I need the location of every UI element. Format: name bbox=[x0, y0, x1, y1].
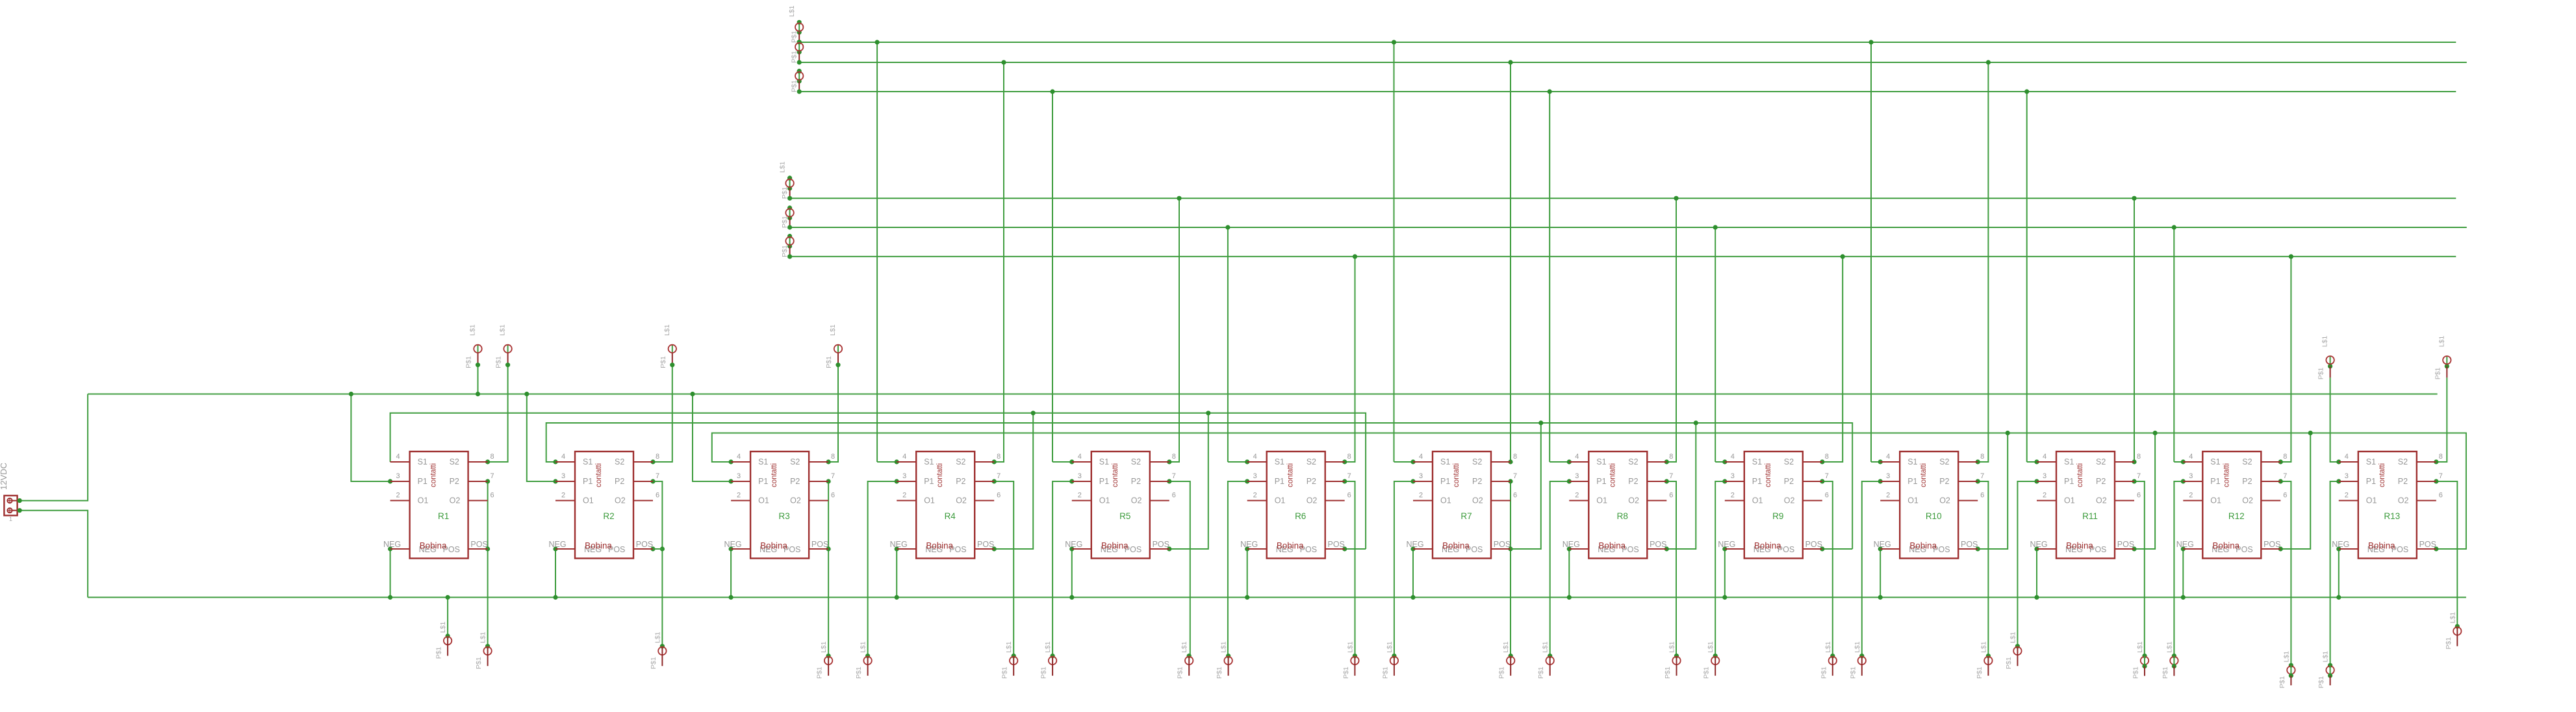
svg-text:4: 4 bbox=[902, 453, 906, 461]
wire connector pin2 to GND bus bbox=[19, 511, 88, 598]
wire R13 P2 down to pad bbox=[2436, 481, 2458, 626]
svg-text:contatti: contatti bbox=[1287, 463, 1295, 487]
wire R12 P1 to pad below bbox=[2174, 481, 2183, 656]
svg-text:6: 6 bbox=[656, 492, 659, 500]
svg-text:P$1: P$1 bbox=[791, 31, 798, 43]
wire R6 P1 to pad below bbox=[1228, 481, 1247, 656]
wire R3 P2/POS down to pad bbox=[828, 481, 829, 656]
svg-text:P1: P1 bbox=[2210, 477, 2220, 486]
svg-text:P2: P2 bbox=[2096, 477, 2106, 486]
svg-text:L$1: L$1 bbox=[1502, 641, 1510, 653]
pad L$1/P$1 (wire pad) bbox=[1342, 641, 1359, 679]
svg-text:R4: R4 bbox=[945, 511, 956, 521]
svg-text:P$1: P$1 bbox=[465, 356, 473, 368]
pad P$1 (stack wire pad) bbox=[791, 40, 804, 63]
svg-text:P$1: P$1 bbox=[781, 186, 789, 199]
svg-text:NEG: NEG bbox=[1406, 540, 1423, 549]
svg-text:P$1: P$1 bbox=[1498, 667, 1506, 679]
svg-text:P2: P2 bbox=[1472, 477, 1482, 486]
svg-text:6: 6 bbox=[2137, 492, 2141, 500]
svg-text:S1: S1 bbox=[1099, 457, 1109, 466]
svg-text:P1: P1 bbox=[1275, 477, 1284, 486]
wire R1 S2 to pad above bbox=[488, 364, 508, 462]
pad L$1/P$1 (wire pad) bbox=[495, 324, 512, 368]
wire pad above down to R13 S2 bbox=[2436, 377, 2447, 462]
pad L$1/P$1 (wire pad) bbox=[2317, 336, 2334, 380]
svg-text:L$1: L$1 bbox=[1542, 641, 1549, 653]
svg-text:R11: R11 bbox=[2082, 511, 2098, 521]
pad L$1/P$1 (wire pad) bbox=[1381, 641, 1398, 679]
wire R2 S2 to pad above bbox=[653, 364, 672, 462]
svg-text:Bobina: Bobina bbox=[1442, 541, 1470, 551]
svg-text:contatti: contatti bbox=[936, 463, 944, 487]
relay R12 (Bobina/contatti) bbox=[2176, 451, 2288, 559]
svg-text:P1: P1 bbox=[2366, 477, 2376, 486]
svg-text:P$1: P$1 bbox=[475, 657, 483, 669]
wire R6 POS from R1 chain end bbox=[1345, 548, 1366, 550]
svg-text:4: 4 bbox=[1419, 453, 1423, 461]
relay R7 (Bobina/contatti) bbox=[1406, 451, 1517, 559]
svg-text:P1: P1 bbox=[1907, 477, 1917, 486]
junction B2 start bbox=[787, 225, 792, 229]
svg-text:S1: S1 bbox=[1907, 457, 1917, 466]
svg-text:L$1: L$1 bbox=[1346, 641, 1354, 653]
wire R12 P2 down to pad bbox=[2280, 481, 2291, 665]
svg-text:2: 2 bbox=[1731, 492, 1735, 500]
svg-text:POS: POS bbox=[636, 540, 653, 549]
svg-text:7: 7 bbox=[1669, 472, 1673, 480]
svg-text:L$1: L$1 bbox=[1824, 641, 1832, 653]
svg-text:S1: S1 bbox=[1440, 457, 1450, 466]
svg-text:R9: R9 bbox=[1772, 511, 1783, 521]
svg-text:2: 2 bbox=[737, 492, 741, 500]
svg-text:O1: O1 bbox=[1440, 496, 1451, 505]
pad L$1/P$1 (wire pad) bbox=[1001, 641, 1018, 679]
svg-text:O2: O2 bbox=[956, 496, 967, 505]
wire bus tap to R5 S1 bbox=[1052, 461, 1072, 463]
svg-text:P$1: P$1 bbox=[855, 667, 863, 679]
wire B1 tap down to R5 S2 bbox=[1169, 198, 1179, 462]
wire R10 P1 to pad below bbox=[1862, 481, 1880, 656]
svg-text:8: 8 bbox=[831, 453, 835, 461]
svg-text:2: 2 bbox=[2043, 492, 2047, 500]
svg-text:8: 8 bbox=[1347, 453, 1351, 461]
svg-text:S2: S2 bbox=[450, 457, 459, 466]
pad L$1/P$1 (wire pad) bbox=[1703, 641, 1720, 679]
pad L$1/P$1 (wire pad) bbox=[1664, 641, 1681, 679]
wire R4 NEG to GND bus bbox=[896, 549, 897, 598]
svg-text:4: 4 bbox=[1731, 453, 1735, 461]
svg-text:P2: P2 bbox=[1628, 477, 1638, 486]
svg-text:S2: S2 bbox=[1939, 457, 1949, 466]
wire R13 NEG to GND bus bbox=[2338, 549, 2340, 598]
svg-text:O2: O2 bbox=[1307, 496, 1318, 505]
wire bus tap to R11 S1 bbox=[2027, 461, 2037, 463]
svg-text:S1: S1 bbox=[1596, 457, 1606, 466]
wire A3 tap down to R5 S1 bbox=[1052, 92, 1053, 462]
relay R11 (Bobina/contatti) bbox=[2030, 451, 2141, 559]
svg-text:contatti: contatti bbox=[1920, 463, 1928, 487]
svg-text:P$1: P$1 bbox=[791, 80, 798, 92]
net R1-S1 chain line bbox=[390, 413, 1366, 549]
wire +12V tap to R2 P1 bbox=[527, 394, 555, 482]
pad P$1 (stack wire pad) bbox=[781, 205, 794, 228]
wire A2 tap down to R4 S2 bbox=[994, 62, 1004, 462]
svg-text:3: 3 bbox=[561, 472, 565, 480]
svg-text:L$1: L$1 bbox=[1707, 641, 1715, 653]
svg-text:P$1: P$1 bbox=[781, 216, 789, 228]
svg-text:2: 2 bbox=[1575, 492, 1579, 500]
svg-text:L$1: L$1 bbox=[2282, 651, 2290, 663]
svg-text:P1: P1 bbox=[583, 477, 593, 486]
wire B3 tap down to R9 S2 bbox=[1822, 257, 1843, 462]
svg-text:3: 3 bbox=[1886, 472, 1890, 480]
svg-text:S1: S1 bbox=[1752, 457, 1762, 466]
svg-text:4: 4 bbox=[396, 453, 400, 461]
svg-text:P$1: P$1 bbox=[435, 646, 443, 659]
wire bus tap to R12 S1 bbox=[2174, 461, 2183, 463]
svg-text:4: 4 bbox=[1253, 453, 1257, 461]
svg-text:6: 6 bbox=[997, 492, 1001, 500]
relay R1 (Bobina/contatti) bbox=[383, 451, 494, 559]
wire bus tap to R10 S1 bbox=[1871, 461, 1880, 463]
wire B2 tap down to R9 S1 bbox=[1715, 227, 1716, 462]
svg-text:NEG: NEG bbox=[1562, 540, 1580, 549]
wire B2 tap down to R6 S1 bbox=[1227, 227, 1229, 462]
wire R10 NEG to GND bus bbox=[1880, 549, 1881, 598]
svg-text:6: 6 bbox=[491, 492, 494, 500]
svg-text:P2: P2 bbox=[1784, 477, 1794, 486]
svg-text:P$1: P$1 bbox=[650, 657, 657, 669]
relay R4 (Bobina/contatti) bbox=[890, 451, 1001, 559]
svg-text:O1: O1 bbox=[418, 496, 429, 505]
svg-text:R8: R8 bbox=[1617, 511, 1628, 521]
svg-text:R10: R10 bbox=[1926, 511, 1942, 521]
wire R6 NEG to GND bus bbox=[1247, 549, 1248, 598]
svg-text:POS: POS bbox=[2117, 540, 2134, 549]
svg-text:4: 4 bbox=[2043, 453, 2047, 461]
svg-text:L$1: L$1 bbox=[479, 631, 487, 643]
svg-text:2: 2 bbox=[1886, 492, 1890, 500]
svg-text:S1: S1 bbox=[758, 457, 768, 466]
svg-text:P1: P1 bbox=[1596, 477, 1606, 486]
svg-text:P2: P2 bbox=[450, 477, 459, 486]
svg-text:L$1: L$1 bbox=[1668, 641, 1676, 653]
pad L$1/P$1 (wire pad) bbox=[2132, 641, 2149, 679]
svg-text:R7: R7 bbox=[1460, 511, 1472, 521]
svg-text:P1: P1 bbox=[924, 477, 934, 486]
svg-text:S2: S2 bbox=[1307, 457, 1316, 466]
svg-text:S2: S2 bbox=[2096, 457, 2106, 466]
pad L$1/P$1 (wire pad) bbox=[2162, 641, 2178, 679]
net A1 top bus bbox=[799, 42, 2456, 43]
connector X1 12VDC (2-pin) bbox=[0, 463, 19, 522]
wire R3 S2 to pad above bbox=[828, 364, 838, 462]
svg-text:6: 6 bbox=[2283, 492, 2287, 500]
svg-text:S2: S2 bbox=[790, 457, 800, 466]
pad L$1/P$1 (wire pad) bbox=[650, 631, 667, 669]
svg-text:P$1: P$1 bbox=[2162, 667, 2169, 679]
svg-text:1: 1 bbox=[9, 516, 12, 522]
svg-text:S2: S2 bbox=[615, 457, 624, 466]
svg-text:8: 8 bbox=[1513, 453, 1517, 461]
svg-text:NEG: NEG bbox=[1240, 540, 1258, 549]
svg-text:P$1: P$1 bbox=[2132, 667, 2140, 679]
svg-text:7: 7 bbox=[1513, 472, 1517, 480]
wire bus tap to R8 S1 bbox=[1549, 461, 1569, 463]
svg-text:NEG: NEG bbox=[890, 540, 908, 549]
svg-text:O1: O1 bbox=[1596, 496, 1607, 505]
svg-text:8: 8 bbox=[491, 453, 494, 461]
svg-text:L$1: L$1 bbox=[779, 161, 787, 173]
pad L$1/P$1 (wire pad) bbox=[659, 324, 676, 368]
svg-text:NEG: NEG bbox=[1718, 540, 1735, 549]
wire +12V tap to R3 P1 bbox=[693, 394, 731, 482]
svg-text:O1: O1 bbox=[1907, 496, 1919, 505]
wire A1 tap down to R10 S1 bbox=[1870, 42, 1872, 462]
svg-text:2: 2 bbox=[561, 492, 565, 500]
svg-text:P$1: P$1 bbox=[1040, 667, 1048, 679]
stack1 third unit top dot bbox=[797, 69, 802, 73]
svg-text:8: 8 bbox=[1825, 453, 1829, 461]
svg-text:3: 3 bbox=[1419, 472, 1423, 480]
svg-text:Bobina: Bobina bbox=[760, 541, 787, 551]
svg-text:P$1: P$1 bbox=[2445, 637, 2453, 650]
svg-text:R2: R2 bbox=[603, 511, 614, 521]
svg-text:Bobina: Bobina bbox=[585, 541, 612, 551]
net B1 mid bus bbox=[790, 197, 2456, 199]
wire R10 P2 down to pad bbox=[1978, 481, 1988, 656]
svg-text:P1: P1 bbox=[2064, 477, 2074, 486]
svg-text:R12: R12 bbox=[2228, 511, 2245, 521]
svg-text:P2: P2 bbox=[790, 477, 800, 486]
wire bus tap to R4 S1 bbox=[877, 461, 897, 463]
svg-text:6: 6 bbox=[1825, 492, 1829, 500]
net GND bottom bus (horizontal) bbox=[88, 597, 2466, 598]
svg-text:POS: POS bbox=[1494, 540, 1511, 549]
svg-text:3: 3 bbox=[1253, 472, 1257, 480]
wire bus tap to R6 S1 bbox=[1228, 461, 1247, 463]
relay R2 (Bobina/contatti) bbox=[548, 451, 659, 559]
svg-text:6: 6 bbox=[1172, 492, 1176, 500]
svg-text:2: 2 bbox=[1419, 492, 1423, 500]
svg-text:6: 6 bbox=[1980, 492, 1984, 500]
wire R8 NEG to GND bus bbox=[1568, 549, 1570, 598]
svg-text:L$1: L$1 bbox=[1044, 641, 1052, 653]
svg-text:L$1: L$1 bbox=[1854, 641, 1861, 653]
junction B1 start bbox=[787, 196, 792, 201]
wire R3 NEG to GND bus bbox=[730, 549, 732, 598]
pad P$1 (stack wire pad) bbox=[791, 20, 804, 43]
junction connector wire 2 bbox=[18, 508, 22, 513]
svg-text:Bobina: Bobina bbox=[420, 541, 447, 551]
svg-text:4: 4 bbox=[1575, 453, 1579, 461]
svg-text:O1: O1 bbox=[758, 496, 769, 505]
svg-text:O1: O1 bbox=[1275, 496, 1286, 505]
svg-text:P2: P2 bbox=[615, 477, 624, 486]
wire R9 POS from R2 chain end bbox=[1822, 548, 1852, 550]
svg-text:7: 7 bbox=[2439, 472, 2443, 480]
svg-text:P$1: P$1 bbox=[791, 51, 798, 63]
svg-text:O1: O1 bbox=[583, 496, 594, 505]
svg-text:S2: S2 bbox=[1628, 457, 1638, 466]
svg-text:Bobina: Bobina bbox=[1909, 541, 1937, 551]
svg-text:L$1: L$1 bbox=[1980, 641, 1987, 653]
svg-text:Bobina: Bobina bbox=[2212, 541, 2239, 551]
pad L$1/P$1 (wire pad) bbox=[825, 324, 842, 368]
wire R6 P2 down to pad bbox=[1345, 481, 1355, 656]
wire R4 P2 down to pad bbox=[994, 481, 1014, 656]
svg-text:O1: O1 bbox=[1752, 496, 1763, 505]
wire R2 P2/POS down to pad bbox=[653, 481, 662, 646]
wire R9 P2 down to pad bbox=[1822, 481, 1833, 656]
svg-text:P$1: P$1 bbox=[659, 356, 667, 368]
svg-text:P2: P2 bbox=[2242, 477, 2252, 486]
pad L$1/P$1 (wire pad) bbox=[1040, 641, 1057, 679]
svg-text:S2: S2 bbox=[2242, 457, 2252, 466]
wire A2 tap down to R7 S2 bbox=[1510, 62, 1511, 462]
wire R8 P1 to pad below bbox=[1550, 481, 1570, 656]
svg-text:4: 4 bbox=[2345, 453, 2349, 461]
svg-text:7: 7 bbox=[1172, 472, 1176, 480]
GND bus pad drop bbox=[447, 598, 448, 637]
svg-text:6: 6 bbox=[1347, 492, 1351, 500]
svg-text:3: 3 bbox=[1575, 472, 1579, 480]
svg-text:P1: P1 bbox=[1752, 477, 1762, 486]
junction B3 start bbox=[787, 254, 792, 259]
svg-text:L$1: L$1 bbox=[1220, 641, 1228, 653]
pad L$1/P$1 (wire pad) bbox=[2005, 631, 2022, 669]
svg-text:L$1: L$1 bbox=[1005, 641, 1013, 653]
wire R10 POS from R3 chain bbox=[1978, 433, 2008, 550]
svg-text:S1: S1 bbox=[2210, 457, 2220, 466]
svg-text:P2: P2 bbox=[956, 477, 965, 486]
svg-text:O2: O2 bbox=[2398, 496, 2409, 505]
svg-text:P2: P2 bbox=[1307, 477, 1316, 486]
svg-text:L$1: L$1 bbox=[788, 5, 796, 17]
svg-text:P$1: P$1 bbox=[1216, 667, 1223, 679]
svg-text:4: 4 bbox=[1886, 453, 1890, 461]
wire R7 POS from R2 chain bbox=[1511, 423, 1541, 549]
pad L$1/P$1 (wire pad) bbox=[475, 631, 492, 669]
wire B2 tap down to R12 S1 bbox=[2173, 227, 2174, 462]
svg-text:R5: R5 bbox=[1119, 511, 1130, 521]
svg-text:P$1: P$1 bbox=[2005, 657, 2013, 669]
svg-text:POS: POS bbox=[2264, 540, 2280, 549]
svg-text:POS: POS bbox=[2419, 540, 2436, 549]
wire R9 NEG to GND bus bbox=[1724, 549, 1726, 598]
svg-text:6: 6 bbox=[831, 492, 835, 500]
svg-text:POS: POS bbox=[1327, 540, 1344, 549]
wire pad above down to R13 S1 bbox=[2330, 377, 2339, 462]
svg-text:7: 7 bbox=[2137, 472, 2141, 480]
svg-text:O2: O2 bbox=[790, 496, 801, 505]
svg-text:contatti: contatti bbox=[771, 463, 778, 487]
svg-text:8: 8 bbox=[2137, 453, 2141, 461]
pad P$1 (stack wire pad) bbox=[791, 69, 804, 92]
svg-text:P$1: P$1 bbox=[1537, 667, 1545, 679]
svg-text:O1: O1 bbox=[1099, 496, 1110, 505]
svg-text:P2: P2 bbox=[1131, 477, 1141, 486]
svg-text:P$1: P$1 bbox=[825, 356, 833, 368]
pad L$1/P$1 (wire pad) bbox=[2434, 336, 2451, 380]
wire R11 POS from R3 chain bbox=[2134, 433, 2155, 550]
svg-text:7: 7 bbox=[1347, 472, 1351, 480]
svg-text:P$1: P$1 bbox=[1849, 667, 1857, 679]
svg-text:P$1: P$1 bbox=[781, 245, 789, 257]
svg-text:O2: O2 bbox=[1784, 496, 1795, 505]
pad L$1/P$1 (wire pad) bbox=[1537, 641, 1554, 679]
svg-text:S2: S2 bbox=[1131, 457, 1141, 466]
pad L$1/P$1 (wire pad) bbox=[1976, 641, 1993, 679]
wire bus tap to R7 S1 bbox=[1394, 461, 1414, 463]
svg-text:NEG: NEG bbox=[1874, 540, 1891, 549]
svg-text:3: 3 bbox=[2345, 472, 2349, 480]
svg-text:NEG: NEG bbox=[548, 540, 566, 549]
svg-text:S2: S2 bbox=[1472, 457, 1482, 466]
wire A1 tap down to R4 S1 bbox=[876, 42, 878, 462]
svg-text:NEG: NEG bbox=[724, 540, 742, 549]
pad L$1/P$1 (wire pad) bbox=[465, 324, 482, 368]
svg-text:L$1: L$1 bbox=[1180, 641, 1188, 653]
stack2 first unit top dot bbox=[787, 175, 792, 180]
svg-text:L$1: L$1 bbox=[499, 324, 507, 336]
svg-text:2: 2 bbox=[2189, 492, 2193, 500]
svg-text:S2: S2 bbox=[1784, 457, 1794, 466]
wire R5 P1 to pad below bbox=[1052, 481, 1072, 656]
svg-text:contatti: contatti bbox=[1609, 463, 1616, 487]
svg-text:S1: S1 bbox=[2366, 457, 2376, 466]
junction connector wire 1 bbox=[18, 498, 22, 503]
wire R7 NEG to GND bus bbox=[1412, 549, 1414, 598]
svg-text:S2: S2 bbox=[2398, 457, 2408, 466]
relay R13 (Bobina/contatti) bbox=[2332, 451, 2443, 559]
svg-text:O1: O1 bbox=[2064, 496, 2075, 505]
svg-text:P1: P1 bbox=[758, 477, 768, 486]
svg-text:Bobina: Bobina bbox=[1277, 541, 1304, 551]
svg-text:O2: O2 bbox=[2242, 496, 2253, 505]
svg-text:P$1: P$1 bbox=[1381, 667, 1389, 679]
svg-text:contatti: contatti bbox=[1112, 463, 1119, 487]
svg-text:P$1: P$1 bbox=[2317, 676, 2325, 689]
pad L$1/P$1 (wire pad) bbox=[1216, 641, 1232, 679]
svg-text:L$1: L$1 bbox=[439, 622, 447, 633]
svg-text:POS: POS bbox=[1153, 540, 1169, 549]
svg-text:2: 2 bbox=[1078, 492, 1082, 500]
svg-text:contatti: contatti bbox=[1765, 463, 1772, 487]
net R2-S1 chain line bbox=[546, 423, 1853, 549]
pad L$1/P$1 (wire pad) bbox=[2278, 651, 2295, 689]
pad P$1 (stack wire pad) bbox=[781, 176, 794, 199]
svg-text:P$1: P$1 bbox=[1001, 667, 1009, 679]
svg-text:7: 7 bbox=[1980, 472, 1984, 480]
wire R11 NEG to GND bus bbox=[2036, 549, 2037, 598]
svg-text:POS: POS bbox=[977, 540, 994, 549]
svg-text:4: 4 bbox=[2189, 453, 2193, 461]
svg-text:3: 3 bbox=[737, 472, 741, 480]
wire R13 P1 to pad below bbox=[2330, 481, 2339, 665]
svg-text:O2: O2 bbox=[1472, 496, 1483, 505]
wire R3 S1 dot bbox=[729, 459, 733, 464]
svg-text:contatti: contatti bbox=[2076, 463, 2084, 487]
net B3 mid bus bbox=[790, 256, 2456, 257]
svg-text:L$1: L$1 bbox=[469, 324, 477, 336]
svg-text:P$1: P$1 bbox=[2317, 367, 2325, 379]
svg-text:P1: P1 bbox=[1440, 477, 1450, 486]
svg-text:O2: O2 bbox=[1131, 496, 1142, 505]
svg-text:3: 3 bbox=[1731, 472, 1735, 480]
svg-text:7: 7 bbox=[656, 472, 659, 480]
